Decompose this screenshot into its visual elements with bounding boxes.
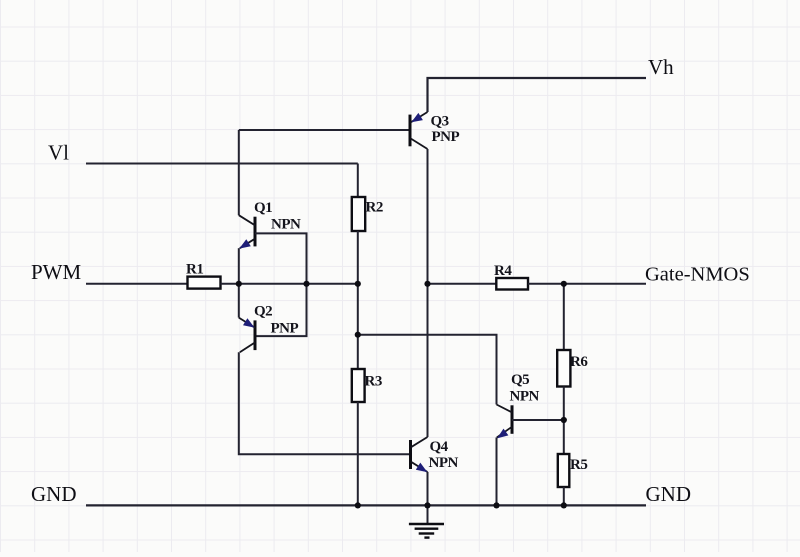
svg-text:PNP: PNP [271, 321, 299, 337]
wire PWM to R1 [86, 283, 187, 285]
wire node down to Q2 emitter [238, 284, 240, 318]
wire Q2 base rectangle [255, 284, 307, 336]
wire Q5 base to R5/R6 column [512, 419, 564, 421]
wire Vh top [428, 78, 647, 112]
node dot Q1Q2 bases [303, 281, 309, 287]
wire Q3 collector down to Q4 collector [427, 149, 429, 437]
svg-text:R2: R2 [366, 200, 383, 216]
wire top-left vertical (Q3 base column) [238, 130, 240, 215]
wire Vl horizontal [86, 163, 358, 165]
svg-text:NPN: NPN [429, 455, 459, 471]
wire R2 bottom to main row and R3 [357, 231, 359, 369]
svg-text:GND: GND [646, 482, 692, 506]
wire R5 to GND row [563, 487, 565, 505]
resistor R2 [352, 197, 365, 231]
wire Q2 collector down to Q4 base row [239, 352, 409, 454]
svg-text:Q2: Q2 [254, 304, 272, 320]
node dot R3 GND [355, 502, 361, 508]
wire main row left (node to R2 column) [239, 283, 358, 285]
wire R6 column from output row [563, 284, 565, 350]
svg-text:Vl: Vl [48, 141, 69, 165]
svg-text:R5: R5 [570, 457, 587, 473]
node dot Q3Q4 collectors output [424, 281, 430, 287]
transistor Q3 [410, 112, 428, 149]
wire R6 to R5 [563, 387, 565, 455]
resistor R6 [557, 350, 570, 387]
node dot R2 bottom main row [355, 281, 361, 287]
node dot row335 R2R3 [355, 332, 361, 338]
svg-text:Q5: Q5 [511, 372, 529, 388]
resistor R1 [188, 277, 221, 289]
node dot R1-Q1Q2 emitters [236, 281, 242, 287]
node dot Q5 base R5R6 [561, 417, 567, 423]
transistor Q4 [411, 437, 428, 472]
wire Q5 emitter to GND row [496, 438, 498, 506]
node dot Q4 emitter GND [424, 502, 430, 508]
transistor Q2 [239, 318, 255, 353]
svg-text:R4: R4 [494, 263, 512, 279]
svg-text:Q3: Q3 [431, 114, 449, 130]
svg-text:R6: R6 [570, 354, 588, 370]
wire GND row [86, 504, 646, 506]
wire Q4 emitter to GND row [427, 472, 429, 505]
node dot R5 GND [561, 502, 567, 508]
svg-text:R1: R1 [186, 262, 203, 278]
ground [409, 505, 444, 537]
wire Q1 base rectangle [255, 233, 307, 283]
resistor R4 [496, 278, 528, 290]
svg-text:NPN: NPN [510, 389, 540, 405]
svg-text:PWM: PWM [31, 260, 82, 284]
svg-text:Vh: Vh [648, 55, 674, 79]
wire Q1 emitter down to node [238, 248, 240, 284]
wire R1 to node [221, 283, 239, 285]
node dot R4 R6 output [561, 281, 567, 287]
wire row 335 to Q5 collector [358, 335, 497, 405]
node dot Q5 emitter GND [493, 502, 499, 508]
resistor R3 [352, 369, 365, 402]
wire Q3 base horizontal [239, 129, 409, 131]
wire R3 bottom to GND row [357, 402, 359, 505]
svg-text:GND: GND [31, 482, 77, 506]
svg-text:R3: R3 [365, 374, 382, 390]
svg-text:NPN: NPN [271, 217, 301, 233]
resistor R5 [558, 454, 570, 487]
wire main row right: node to R4 [428, 283, 497, 285]
transistor Q1 [239, 215, 255, 248]
wire Vl corner down to R2 [357, 164, 359, 198]
svg-text:PNP: PNP [432, 129, 460, 145]
svg-text:Q1: Q1 [254, 200, 272, 216]
svg-text:Gate-NMOS: Gate-NMOS [645, 264, 750, 286]
wire R4 to Gate-NMOS [528, 283, 646, 285]
transistor Q5 [497, 405, 513, 439]
svg-text:Q4: Q4 [430, 439, 449, 455]
